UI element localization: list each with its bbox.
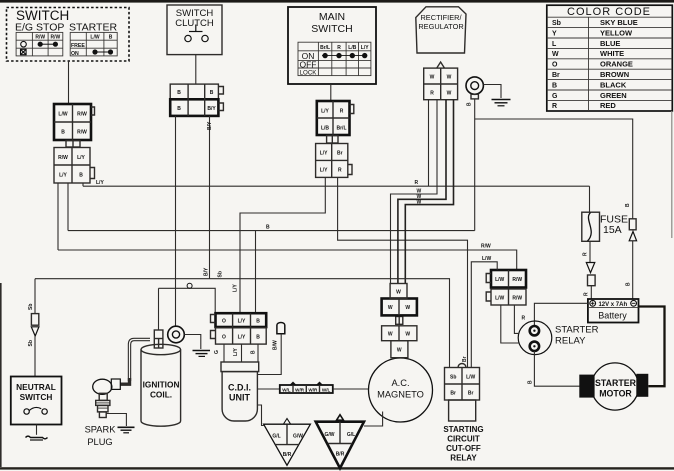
svg-text:STARTER: STARTER bbox=[595, 378, 637, 388]
bullet connector on Sb wire bbox=[31, 314, 38, 326]
wire inline connector to magneto bbox=[333, 388, 369, 390]
svg-text:G: G bbox=[214, 350, 220, 354]
svg-text:L/W: L/W bbox=[482, 256, 491, 262]
wire B ring terminal down to B bus bbox=[474, 99, 476, 231]
svg-text:B: B bbox=[177, 106, 181, 112]
fuse 15A bbox=[582, 212, 628, 241]
svg-text:B: B bbox=[256, 319, 260, 325]
bullet plug (triangle) on B wire bbox=[626, 232, 637, 300]
wire B/Y clutch connector down to Sb line bbox=[204, 116, 224, 279]
svg-text:Br/L: Br/L bbox=[320, 45, 330, 51]
wire main switch to connector bbox=[330, 84, 332, 101]
clutch connector B B / B B/Y bbox=[170, 84, 223, 116]
svg-text:MAGNETO: MAGNETO bbox=[377, 390, 424, 400]
bullet connector on B wire bbox=[629, 219, 636, 230]
svg-text:ORANGE: ORANGE bbox=[600, 60, 633, 69]
svg-text:L/Y: L/Y bbox=[96, 180, 104, 186]
wire switch box to connector bbox=[68, 61, 70, 104]
svg-text:E/G STOP: E/G STOP bbox=[15, 22, 64, 34]
connector lock link bbox=[66, 141, 80, 148]
magneto connector lock link bbox=[396, 317, 403, 325]
wire Br main switch to cut-off relay bbox=[338, 177, 468, 367]
svg-text:L/Y: L/Y bbox=[77, 155, 85, 161]
svg-text:REGULATOR: REGULATOR bbox=[418, 22, 463, 31]
svg-text:B: B bbox=[79, 173, 83, 179]
svg-text:R/W: R/W bbox=[77, 130, 87, 136]
svg-text:O: O bbox=[552, 62, 558, 69]
svg-text:W/L: W/L bbox=[322, 387, 331, 392]
wire magneto to thick triangle connector bbox=[364, 412, 383, 427]
clutch switch box bbox=[167, 5, 222, 55]
svg-text:B: B bbox=[266, 225, 270, 231]
svg-text:B: B bbox=[251, 350, 257, 354]
svg-text:R: R bbox=[415, 180, 419, 186]
page top border bbox=[0, 0, 674, 3]
main switch connector (switch side, bold) L/Y R / L/B Br/L bbox=[317, 101, 354, 135]
svg-text:R/W: R/W bbox=[35, 35, 45, 41]
battery bbox=[588, 299, 639, 323]
svg-text:WHITE: WHITE bbox=[600, 49, 624, 58]
svg-text:L/Y: L/Y bbox=[361, 45, 369, 51]
svg-text:SWITCH: SWITCH bbox=[311, 23, 352, 35]
svg-text:B: B bbox=[109, 35, 113, 41]
svg-text:12V x 7Ah: 12V x 7Ah bbox=[598, 302, 627, 308]
svg-text:R: R bbox=[430, 91, 434, 97]
frame ground symbol (rectifier) bbox=[483, 85, 510, 106]
svg-text:Sb: Sb bbox=[552, 20, 561, 27]
svg-text:MOTOR: MOTOR bbox=[599, 389, 632, 399]
A.C. magneto bbox=[369, 358, 433, 422]
svg-text:R/W: R/W bbox=[512, 296, 522, 302]
main switch contact table bbox=[298, 42, 371, 76]
color code table bbox=[547, 5, 673, 111]
svg-text:15A: 15A bbox=[603, 224, 622, 236]
svg-text:L/W: L/W bbox=[90, 35, 99, 41]
wire L/Y from connector to main bus bbox=[83, 180, 104, 186]
magneto connector (lower) W W bbox=[382, 326, 417, 341]
svg-text:Br: Br bbox=[462, 356, 468, 362]
wire CDI to triangle connector bbox=[257, 405, 263, 426]
spark plug cap bbox=[93, 379, 112, 394]
svg-text:IGNITION: IGNITION bbox=[143, 380, 180, 390]
svg-text:R/W: R/W bbox=[58, 155, 68, 161]
svg-text:R: R bbox=[584, 292, 590, 296]
wire R fuse to bullet bbox=[583, 241, 591, 262]
high tension cord coil to plug cap bbox=[120, 340, 150, 385]
svg-text:B/Y: B/Y bbox=[204, 267, 210, 276]
CDI unit cap bbox=[221, 362, 259, 372]
starter switch table bbox=[70, 32, 117, 56]
spark plug label bbox=[85, 425, 117, 448]
wire L/Y main switch to CDI bbox=[240, 177, 325, 313]
wire W2 rectifier to magneto bbox=[398, 100, 446, 284]
coil ring terminal bbox=[168, 326, 185, 343]
svg-text:G/L: G/L bbox=[347, 432, 355, 438]
right edge artifact bbox=[671, 111, 673, 238]
svg-text:C.D.I.: C.D.I. bbox=[228, 383, 251, 393]
handlebar switch housing (dashed) bbox=[7, 8, 130, 62]
svg-text:B: B bbox=[467, 102, 473, 106]
wire L/W lower connector to relay coil bbox=[501, 305, 519, 343]
svg-text:B/Y: B/Y bbox=[207, 121, 213, 130]
svg-text:L/W: L/W bbox=[466, 375, 475, 381]
svg-text:B/R: B/R bbox=[336, 452, 345, 458]
svg-text:NEUTRAL: NEUTRAL bbox=[16, 382, 56, 392]
svg-text:L/Y: L/Y bbox=[233, 348, 239, 356]
starter relay bbox=[518, 321, 598, 355]
svg-text:L/Y: L/Y bbox=[233, 284, 239, 292]
svg-text:L/W: L/W bbox=[58, 112, 67, 118]
main L/Y-R horizontal bus to fuse bbox=[83, 185, 590, 187]
svg-text:W: W bbox=[447, 75, 452, 81]
wire L/W into connector and to cut-off relay bbox=[471, 256, 497, 368]
svg-text:Sb: Sb bbox=[450, 375, 456, 381]
page bottom border bbox=[0, 467, 674, 469]
svg-text:W: W bbox=[430, 75, 435, 81]
svg-text:B: B bbox=[625, 203, 631, 207]
CDI unit body bbox=[222, 372, 257, 421]
wire R/W from connector down bbox=[57, 183, 59, 250]
svg-text:R: R bbox=[340, 108, 344, 114]
svg-text:Br: Br bbox=[468, 391, 474, 397]
svg-text:Sb: Sb bbox=[28, 340, 34, 346]
wire R/W lower connector to relay coil bbox=[514, 305, 525, 333]
svg-text:ON: ON bbox=[71, 51, 79, 57]
svg-text:CIRCUIT: CIRCUIT bbox=[447, 435, 480, 444]
svg-text:Y: Y bbox=[552, 30, 557, 37]
coil terminal drop bbox=[158, 288, 160, 330]
svg-text:B: B bbox=[552, 82, 557, 89]
svg-text:Br: Br bbox=[450, 391, 456, 397]
triangle connector (magneto side, bold) G/W G/L B/R bbox=[316, 415, 364, 469]
svg-text:L/B: L/B bbox=[348, 45, 356, 51]
svg-text:G/W: G/W bbox=[293, 434, 303, 440]
bullet plug (triangle) on R wire bbox=[586, 263, 595, 273]
starter motor bbox=[579, 363, 648, 410]
main switch box bbox=[288, 7, 376, 84]
svg-text:A.C.: A.C. bbox=[391, 378, 409, 388]
wire B ring terminal to battery minus bbox=[475, 119, 633, 219]
starting circuit cut-off relay connector Sb L/W / Br Br bbox=[445, 364, 480, 401]
wire B clutch connector to coil ring terminal bbox=[175, 116, 177, 326]
svg-text:L/W: L/W bbox=[495, 277, 504, 283]
ground ring terminal at rectifier bbox=[466, 77, 483, 106]
svg-text:FREE: FREE bbox=[71, 43, 85, 49]
CDI pigtail wires G L/Y B bbox=[214, 344, 258, 362]
Sb wire neutral switch to cut-off relay bbox=[35, 279, 450, 368]
svg-text:W: W bbox=[396, 290, 401, 296]
svg-text:RELAY: RELAY bbox=[555, 336, 586, 347]
svg-text:B: B bbox=[528, 380, 534, 384]
wire W1 rectifier to magneto bbox=[391, 100, 438, 284]
wire B/W to CDI bbox=[257, 334, 281, 375]
svg-text:CUT-OFF: CUT-OFF bbox=[446, 444, 481, 453]
R/W bus to relay connector bbox=[58, 244, 517, 271]
cord fitting bbox=[111, 379, 120, 389]
svg-text:B: B bbox=[626, 282, 632, 286]
triangle connector (CDI side) G/L G/W B/R bbox=[264, 419, 311, 466]
svg-text:Battery: Battery bbox=[598, 311, 627, 321]
svg-text:YELLOW: YELLOW bbox=[600, 28, 633, 37]
svg-text:PLUG: PLUG bbox=[87, 437, 112, 447]
svg-text:OFF: OFF bbox=[300, 60, 317, 70]
svg-text:RECTIFIER/: RECTIFIER/ bbox=[420, 13, 462, 22]
svg-text:L/Y: L/Y bbox=[320, 168, 328, 174]
svg-text:Br: Br bbox=[337, 151, 343, 157]
svg-text:B: B bbox=[177, 90, 181, 96]
svg-text:SWITCH: SWITCH bbox=[20, 392, 53, 402]
svg-text:R/W: R/W bbox=[77, 112, 87, 118]
svg-text:W/R: W/R bbox=[308, 387, 318, 392]
connector (harness side) R/W L/Y / L/Y B bbox=[54, 148, 95, 184]
svg-text:B/Y: B/Y bbox=[207, 106, 216, 112]
svg-text:B: B bbox=[61, 130, 65, 136]
svg-text:W: W bbox=[552, 51, 559, 58]
svg-text:RED: RED bbox=[600, 101, 616, 110]
W wire labels bbox=[417, 189, 422, 206]
svg-text:O: O bbox=[222, 335, 226, 341]
spark plug ground wire bbox=[106, 414, 126, 427]
svg-text:BLACK: BLACK bbox=[600, 80, 627, 89]
svg-text:O: O bbox=[222, 319, 226, 325]
svg-text:SPARK: SPARK bbox=[85, 425, 117, 435]
CDI connector (harness side, bold) O L/Y B bbox=[211, 313, 267, 327]
svg-text:W: W bbox=[447, 91, 452, 97]
ground symbol at coil bbox=[184, 335, 210, 357]
wire bus to fuse bbox=[589, 186, 591, 212]
wire B from connector down bbox=[67, 183, 69, 231]
bullet plug (triangle) on Sb wire bbox=[28, 327, 39, 377]
svg-text:G/L: G/L bbox=[272, 434, 280, 440]
svg-text:W: W bbox=[405, 332, 410, 338]
magneto stem W box bbox=[391, 341, 408, 359]
svg-text:L/W: L/W bbox=[495, 296, 504, 302]
magneto connector (upper, bold) W W bbox=[382, 299, 417, 316]
svg-text:L/Y: L/Y bbox=[320, 151, 328, 157]
svg-text:W: W bbox=[397, 348, 402, 354]
svg-text:COIL.: COIL. bbox=[150, 390, 172, 400]
neutral switch box bbox=[11, 377, 62, 425]
rectifier connector W W / R W bbox=[424, 62, 458, 100]
wire CDI to magneto inline connector bbox=[257, 388, 279, 390]
ground symbol at spark plug bbox=[118, 427, 135, 433]
svg-text:L/Y: L/Y bbox=[321, 108, 329, 114]
top W box bbox=[390, 284, 407, 299]
svg-text:W/R: W/R bbox=[295, 387, 305, 392]
svg-text:BROWN: BROWN bbox=[600, 70, 629, 79]
page left edge mark bbox=[0, 283, 2, 467]
svg-text:B: B bbox=[210, 90, 214, 96]
svg-text:L/Y: L/Y bbox=[238, 319, 246, 325]
svg-text:STARTER: STARTER bbox=[69, 22, 117, 34]
svg-text:L: L bbox=[552, 41, 557, 48]
ignition coil primary wire (from y288 line) bbox=[159, 283, 216, 313]
svg-text:W: W bbox=[388, 305, 393, 311]
CDI connector (unit side) O L/Y B bbox=[211, 328, 267, 344]
starting circuit cut-off relay body bbox=[443, 400, 483, 463]
wire clutch switch to connector bbox=[195, 55, 197, 85]
connector (switch side, bold) L/W R/W / B R/W bbox=[54, 104, 95, 140]
Sb wire left drop bbox=[28, 279, 35, 314]
rectifier/regulator body bbox=[416, 7, 466, 53]
ground symbol below neutral switch bbox=[26, 425, 48, 441]
main switch connector lock link bbox=[327, 136, 338, 144]
svg-text:MAIN: MAIN bbox=[319, 11, 345, 23]
svg-text:B/R: B/R bbox=[283, 452, 292, 458]
starter switch connector (lower) L/W R/W bbox=[486, 289, 526, 305]
B/W pigtail cap bbox=[273, 323, 285, 351]
svg-text:Sb: Sb bbox=[218, 271, 224, 277]
starter switch connector (upper, bold) L/W R/W bbox=[486, 270, 526, 288]
svg-text:G/W: G/W bbox=[325, 432, 335, 438]
svg-text:R: R bbox=[522, 316, 526, 322]
svg-text:W/L: W/L bbox=[282, 387, 291, 392]
svg-text:Br/L: Br/L bbox=[337, 125, 347, 131]
spark plug body bbox=[96, 393, 110, 417]
svg-text:R/W: R/W bbox=[51, 35, 61, 41]
svg-text:R: R bbox=[552, 103, 557, 110]
svg-text:LOCK: LOCK bbox=[300, 70, 318, 77]
E/G stop switch table bbox=[16, 32, 63, 56]
svg-text:COLOR CODE: COLOR CODE bbox=[567, 6, 651, 18]
svg-text:SKY BLUE: SKY BLUE bbox=[600, 18, 638, 27]
ignition coil body bbox=[141, 344, 181, 426]
B bus to ground ring terminal bbox=[68, 225, 475, 231]
svg-text:W: W bbox=[417, 200, 422, 206]
svg-text:Br: Br bbox=[552, 72, 560, 79]
svg-text:B/W: B/W bbox=[273, 340, 279, 350]
svg-text:BLUE: BLUE bbox=[600, 39, 620, 48]
svg-text:L/Y: L/Y bbox=[238, 335, 246, 341]
svg-text:R: R bbox=[338, 168, 342, 174]
svg-text:R/W: R/W bbox=[481, 244, 491, 250]
svg-text:STARTING: STARTING bbox=[443, 425, 483, 434]
main switch connector (harness side) L/Y Br / L/Y R bbox=[316, 144, 352, 178]
svg-text:B: B bbox=[256, 335, 260, 341]
svg-text:G: G bbox=[552, 93, 558, 100]
svg-text:W: W bbox=[388, 332, 393, 338]
svg-text:UNIT: UNIT bbox=[229, 393, 250, 403]
svg-text:RELAY: RELAY bbox=[450, 454, 477, 463]
wire B starter relay to starter motor bbox=[528, 351, 580, 386]
svg-text:STARTER: STARTER bbox=[555, 325, 599, 336]
svg-text:GREEN: GREEN bbox=[600, 91, 627, 100]
inline connector W/L W/R W/R W/L bbox=[280, 382, 333, 394]
svg-text:W: W bbox=[405, 305, 410, 311]
ignition coil terminal bbox=[154, 330, 163, 348]
svg-text:R: R bbox=[337, 45, 341, 51]
wire B bus down to CDI connector bbox=[255, 231, 257, 314]
wire battery plus to starter relay bbox=[534, 303, 588, 326]
svg-text:CLUTCH: CLUTCH bbox=[175, 18, 214, 29]
svg-text:Sb: Sb bbox=[28, 304, 34, 310]
svg-text:L/Y: L/Y bbox=[59, 173, 67, 179]
bullet connector on R wire bbox=[584, 275, 596, 299]
svg-text:R/W: R/W bbox=[512, 277, 522, 283]
svg-text:R: R bbox=[583, 252, 589, 256]
wire W3 rectifier to magneto bbox=[405, 100, 453, 284]
heavy cable starter motor to battery minus bbox=[639, 307, 665, 387]
wire R rectifier to bus bbox=[428, 100, 430, 187]
svg-text:L/B: L/B bbox=[321, 125, 329, 131]
